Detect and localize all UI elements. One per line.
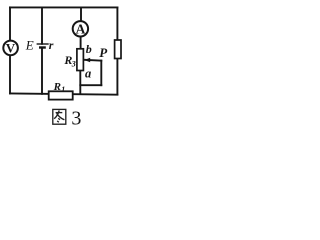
svg-text:b: b (86, 42, 92, 56)
svg-text:R: R (53, 81, 61, 93)
svg-text:A: A (76, 21, 86, 36)
svg-text:3: 3 (71, 107, 81, 129)
svg-text:3: 3 (71, 59, 76, 68)
svg-text:a: a (85, 67, 91, 81)
svg-text:1: 1 (61, 85, 65, 94)
svg-text:r: r (49, 38, 54, 52)
svg-text:V: V (6, 40, 16, 55)
svg-text:E: E (25, 38, 34, 53)
svg-text:P: P (99, 45, 108, 60)
